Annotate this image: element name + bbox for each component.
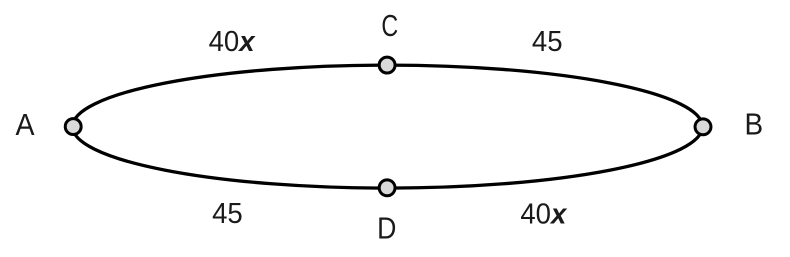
svg-text:D: D (377, 211, 396, 245)
svg-text:A: A (15, 108, 34, 142)
svg-text:45: 45 (212, 196, 243, 229)
svg-text:C: C (381, 8, 398, 43)
svg-text:40x: 40x (520, 197, 567, 230)
svg-text:40x: 40x (209, 24, 256, 57)
svg-text:B: B (744, 107, 763, 142)
svg-text:45: 45 (532, 24, 563, 57)
